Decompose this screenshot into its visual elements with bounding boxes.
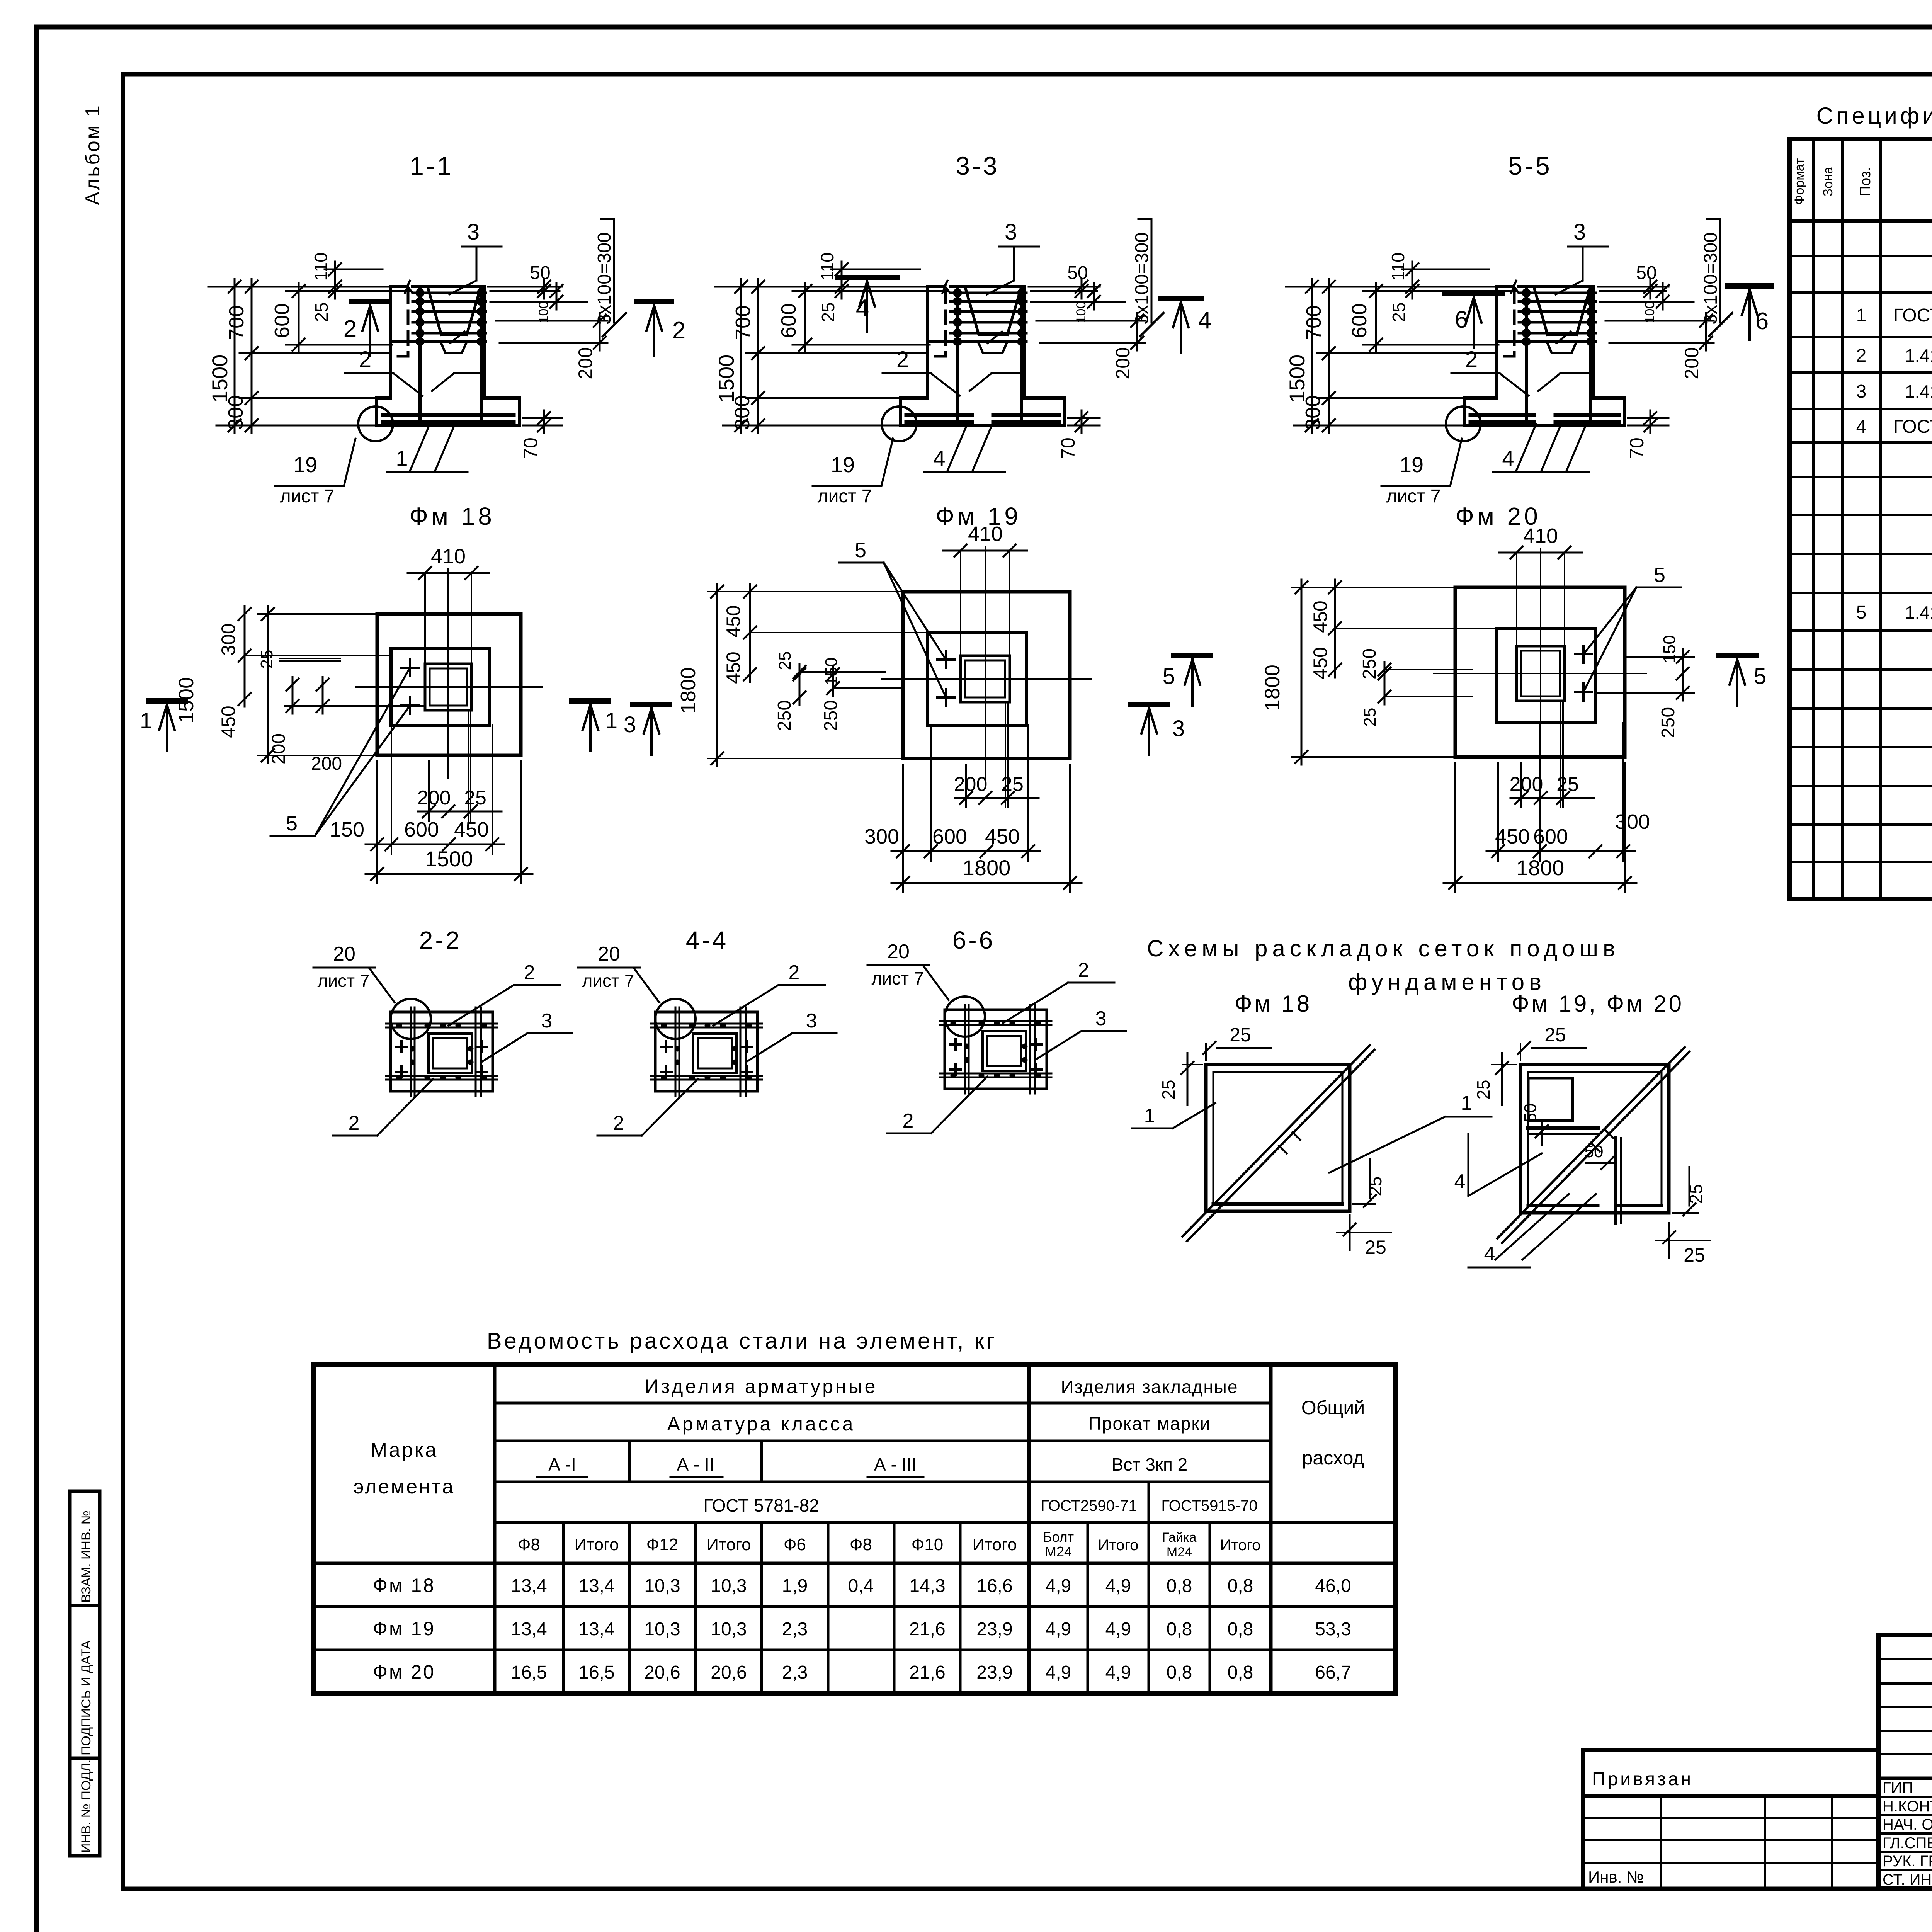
svg-text:2: 2 [1856, 345, 1867, 366]
svg-text:300: 300 [1301, 395, 1325, 430]
svg-text:16,5: 16,5 [578, 1662, 614, 1683]
svg-text:1: 1 [140, 708, 152, 733]
svg-text:600: 600 [404, 818, 439, 841]
section 3-3 footing outline [900, 398, 1065, 425]
svg-text:5: 5 [855, 539, 866, 562]
svg-text:4,9: 4,9 [1105, 1576, 1131, 1596]
svg-text:Инв. №: Инв. № [1588, 1868, 1644, 1886]
small section 6-6 leader 2 top [1003, 983, 1068, 1023]
svg-text:600: 600 [1533, 825, 1568, 848]
svg-text:50: 50 [1636, 263, 1656, 283]
section 5-5 left cut arrow 6 [1445, 291, 1502, 296]
small section 6-6 leader 3 right [1035, 1031, 1082, 1060]
svg-text:19: 19 [831, 452, 855, 477]
svg-text:ГОСТ5915-70: ГОСТ5915-70 [1161, 1497, 1257, 1514]
svg-text:14,3: 14,3 [909, 1576, 945, 1596]
section 5-5 dimension chain 600 [1363, 290, 1516, 292]
svg-text:Вст 3кп 2: Вст 3кп 2 [1112, 1454, 1188, 1475]
svg-text:3x100=300: 3x100=300 [594, 232, 615, 325]
plan Фм 20 column square [1517, 646, 1565, 701]
svg-text:23,9: 23,9 [976, 1619, 1012, 1639]
svg-text:Схемы раскладок сеток подошв: Схемы раскладок сеток подошв [1147, 935, 1620, 961]
svg-text:600: 600 [932, 825, 967, 848]
svg-text:600: 600 [270, 303, 294, 338]
small section 4-4 inner column square [693, 1034, 736, 1073]
svg-text:1,9: 1,9 [782, 1576, 808, 1596]
scheme Фм 19 20 dim 25 right-bottom [1673, 1212, 1698, 1214]
plan Фм 19 embed plus marks pos.5 [937, 658, 954, 661]
scheme Фм 19 20 dim 25 top [1520, 1043, 1521, 1061]
svg-text:6: 6 [1755, 308, 1769, 335]
svg-text:Ф8: Ф8 [518, 1535, 540, 1554]
svg-text:20,6: 20,6 [644, 1662, 680, 1683]
svg-text:лист 7: лист 7 [582, 971, 634, 991]
section 5-5 bottom mesh leader label 4 [1516, 424, 1536, 472]
svg-text:1-1: 1-1 [410, 151, 453, 180]
section 3-3 bottom mesh leader label 4 [947, 424, 967, 472]
svg-text:1: 1 [605, 708, 617, 733]
svg-text:0,8: 0,8 [1167, 1576, 1192, 1596]
svg-text:Зона: Зона [1821, 167, 1835, 196]
section 5-5 socket cup [1534, 289, 1548, 335]
svg-text:200: 200 [954, 773, 988, 796]
small section 2-2 leader 2 top [449, 985, 514, 1026]
svg-text:5: 5 [1856, 602, 1867, 623]
svg-text:Ф6: Ф6 [784, 1535, 806, 1554]
small section 4-4 node circle 20 [655, 999, 696, 1039]
svg-text:25: 25 [1686, 1184, 1706, 1204]
section 3-3 bottom mesh bar [928, 340, 1026, 343]
section 1-1 dimension chain 600 [286, 290, 410, 292]
svg-text:0,8: 0,8 [1228, 1576, 1253, 1596]
svg-text:200: 200 [417, 787, 451, 809]
svg-text:25: 25 [1361, 708, 1379, 727]
plan Фм 18 bottom dims 200 25 [428, 761, 430, 821]
svg-text:50: 50 [1521, 1104, 1540, 1122]
svg-text:4: 4 [933, 446, 945, 470]
svg-text:4: 4 [1856, 417, 1867, 437]
scheme Фм 19 20 dim 25 left [1492, 1064, 1517, 1065]
svg-text:2: 2 [672, 317, 685, 344]
svg-text:5: 5 [286, 812, 298, 835]
svg-text:600: 600 [1348, 303, 1371, 338]
svg-text:450: 450 [454, 818, 489, 841]
section 3-3 horizontal mesh bars pos.3 [950, 292, 1026, 294]
svg-text:200: 200 [575, 347, 596, 379]
svg-text:Общий: Общий [1301, 1397, 1365, 1418]
svg-text:4: 4 [1484, 1243, 1495, 1265]
svg-text:2: 2 [349, 1112, 360, 1134]
section 5-5 right dimensions 50 100 200 [1598, 286, 1668, 288]
svg-text:3x100=300: 3x100=300 [1701, 232, 1721, 325]
scheme Фм 18 dim 25 left [1182, 1064, 1202, 1065]
svg-text:Итого: Итого [706, 1535, 751, 1554]
section 3-3 left cut arrow 4 [837, 275, 897, 280]
svg-text:3: 3 [806, 1010, 817, 1032]
scheme Фм 19 20 mesh square [1520, 1065, 1669, 1213]
section 3-3 break mark [942, 280, 950, 293]
small section 2-2 leader 3 right [481, 1033, 527, 1062]
svg-text:Привязан: Привязан [1592, 1769, 1693, 1789]
plan Фм 18 centerlines [356, 686, 542, 688]
svg-text:300: 300 [218, 623, 239, 655]
svg-text:4,9: 4,9 [1046, 1576, 1071, 1596]
specification table column lines [1812, 139, 1815, 899]
small section 2-2 rebar dots [396, 1023, 402, 1028]
svg-text:4,9: 4,9 [1046, 1619, 1071, 1639]
section 1-1 left dimension chain 1500 [209, 286, 390, 288]
svg-text:лист 7: лист 7 [280, 486, 335, 507]
svg-text:2: 2 [344, 316, 357, 342]
svg-text:2: 2 [789, 961, 800, 984]
svg-text:200: 200 [1510, 773, 1543, 796]
section 3-3 dimension 3x100=300 [1151, 219, 1153, 323]
small section 6-6 mesh bars [964, 1005, 966, 1094]
svg-text:2: 2 [896, 347, 909, 372]
small section 4-4 corner plus marks [661, 1046, 672, 1048]
section 5-5 hidden edge dashed [1513, 290, 1516, 354]
section 3-3 dimension 70 [1068, 417, 1100, 419]
svg-text:46,0: 46,0 [1315, 1576, 1351, 1596]
section 1-1 break mark [405, 280, 413, 293]
small section 6-6 corner plus marks [950, 1043, 961, 1046]
plan Фм 19 bottom total dim [902, 764, 904, 893]
svg-text:70: 70 [1626, 437, 1648, 459]
svg-text:Ф8: Ф8 [850, 1535, 872, 1554]
section 5-5 column outline [1495, 287, 1498, 398]
svg-text:250: 250 [774, 700, 795, 731]
svg-text:300: 300 [224, 395, 247, 430]
plan Фм 19 left cut arrow 3 [633, 702, 670, 707]
section 5-5 break mark [1511, 280, 1519, 293]
svg-text:25: 25 [1556, 773, 1579, 796]
section 1-1 right dimensions 50 100 200 [488, 286, 562, 288]
svg-text:25: 25 [311, 302, 332, 322]
left margin stamp strip [70, 1491, 100, 1856]
svg-text:3: 3 [541, 1010, 553, 1032]
small section 6-6 node circle 20 [945, 997, 985, 1037]
svg-text:лист 7: лист 7 [318, 971, 370, 991]
svg-text:Болт: Болт [1043, 1529, 1074, 1545]
svg-text:Формат: Формат [1792, 158, 1807, 205]
svg-text:ГОСТ2590-71: ГОСТ2590-71 [1041, 1497, 1137, 1514]
svg-text:5: 5 [1754, 664, 1766, 689]
svg-text:2-2: 2-2 [419, 926, 462, 954]
svg-text:СТ. ИНЖ.: СТ. ИНЖ. [1883, 1871, 1932, 1888]
svg-text:100: 100 [1643, 301, 1657, 323]
svg-text:450: 450 [218, 706, 239, 738]
svg-text:Альбом 1: Альбом 1 [82, 104, 104, 205]
svg-text:25: 25 [1684, 1244, 1705, 1266]
plan Фм 20 right cut arrow 5 [1719, 653, 1756, 658]
section 5-5 right cut arrow 6 [1728, 283, 1772, 289]
svg-text:1: 1 [1144, 1105, 1155, 1127]
section 3-3 right dimensions 50 100 200 [1029, 286, 1100, 288]
svg-text:А - II: А - II [677, 1454, 714, 1475]
svg-text:450: 450 [985, 825, 1020, 848]
section 3-3 hidden edge dashed [944, 290, 947, 354]
small section 6-6 rebar dots [951, 1020, 956, 1026]
plan Фм 18 middle step square [391, 649, 490, 725]
section 1-1 label 3 leader [462, 246, 502, 248]
svg-text:100: 100 [536, 301, 551, 323]
svg-text:6-6: 6-6 [952, 926, 995, 954]
section 5-5 bottom mesh bar [1497, 340, 1595, 343]
svg-text:600: 600 [777, 303, 800, 338]
small section 2-2 leader 2 bottom [377, 1079, 433, 1136]
plan Фм 18 leader 5 [315, 668, 410, 836]
section 3-3 socket cup [966, 289, 979, 335]
svg-text:ГОСТ 23279-83: ГОСТ 23279-83 [1893, 417, 1932, 437]
svg-text:5: 5 [1163, 664, 1175, 689]
small section 4-4 rebar dots [661, 1023, 667, 1028]
steel table outline [314, 1365, 1396, 1693]
scheme Фм 19 20 dim 50 upper [1541, 1121, 1543, 1146]
svg-text:3: 3 [1172, 716, 1185, 741]
plan Фм 20 middle step square [1496, 628, 1596, 723]
svg-text:РУК. ГР.: РУК. ГР. [1883, 1853, 1932, 1870]
plan Фм 19 bottom dims 200 25 [965, 764, 967, 808]
svg-text:50: 50 [1585, 1142, 1604, 1161]
svg-text:450: 450 [1495, 825, 1530, 848]
plan Фм 20 top dimension 410 [1516, 553, 1517, 646]
svg-text:20: 20 [887, 940, 910, 963]
section 1-1 socket cup [428, 289, 441, 335]
section 3-3 detail circle node 19 [882, 406, 917, 441]
svg-text:лист 7: лист 7 [1386, 486, 1441, 507]
svg-text:20,6: 20,6 [711, 1662, 747, 1683]
plan Фм 19 centerlines [882, 678, 1091, 680]
svg-text:25: 25 [1389, 302, 1409, 322]
svg-text:13,4: 13,4 [578, 1576, 614, 1596]
svg-text:2: 2 [1465, 347, 1478, 372]
svg-text:ГОСТ 23279-83: ГОСТ 23279-83 [1893, 305, 1932, 326]
svg-text:23,9: 23,9 [976, 1662, 1012, 1683]
small section 2-2 node circle 20 [391, 999, 431, 1039]
svg-text:700: 700 [1302, 305, 1325, 340]
svg-text:Ф10: Ф10 [912, 1535, 943, 1554]
svg-text:10,3: 10,3 [711, 1619, 747, 1639]
section 5-5 socket lower trapezoid [1547, 342, 1577, 353]
svg-text:ИНВ. № ПОДЛ.: ИНВ. № ПОДЛ. [79, 1760, 94, 1853]
svg-text:450: 450 [723, 605, 744, 637]
section 1-1 bottom mesh leader label 1 [410, 424, 430, 472]
svg-text:ПОДПИСЬ И ДАТА: ПОДПИСЬ И ДАТА [79, 1640, 94, 1755]
svg-text:4,9: 4,9 [1046, 1662, 1071, 1683]
plan Фм 18 top dimension 410 [424, 573, 426, 664]
svg-text:3: 3 [467, 219, 480, 245]
svg-text:25: 25 [257, 650, 276, 669]
svg-text:Поз.: Поз. [1857, 167, 1874, 196]
svg-text:450: 450 [1310, 600, 1331, 633]
plan Фм 20 embed plus marks pos.5 [1575, 653, 1592, 655]
svg-text:Ф12: Ф12 [646, 1535, 678, 1554]
svg-text:100: 100 [1074, 301, 1088, 323]
plan Фм 20 left cut arrow 5 [1174, 653, 1211, 658]
svg-text:ГИП: ГИП [1883, 1779, 1913, 1796]
section 5-5 footing mesh pos.1 bold [1471, 413, 1534, 417]
plan Фм 19 left sub dims [749, 584, 751, 682]
svg-text:Итого: Итого [574, 1535, 619, 1554]
small section 2-2 mesh bars [410, 1007, 412, 1096]
scheme Фм 18 leaders 1 [1173, 1103, 1215, 1128]
svg-text:расход: расход [1302, 1447, 1364, 1469]
svg-text:1: 1 [396, 446, 408, 470]
section 1-1 dimension chain 700 300 [240, 352, 390, 354]
svg-text:50: 50 [530, 263, 550, 283]
svg-text:2: 2 [1078, 959, 1089, 981]
plan Фм 19 column square [961, 656, 1010, 702]
svg-text:150: 150 [1660, 635, 1679, 663]
svg-text:1.412-1/77 в.3: 1.412-1/77 в.3 [1905, 381, 1932, 401]
svg-text:3: 3 [1856, 381, 1867, 402]
small section 4-4 leader 2 top [713, 985, 779, 1026]
section 5-5 vertical bars pos.2 [1525, 290, 1528, 422]
section 5-5 chamfer leader lines [1451, 372, 1500, 374]
svg-text:20: 20 [598, 943, 620, 965]
section 1-1 column outline [389, 287, 392, 398]
section 5-5 footing outline [1464, 398, 1625, 425]
plan Фм 19 leader 5 [884, 563, 946, 660]
svg-text:110: 110 [1388, 252, 1408, 281]
svg-text:450: 450 [723, 651, 744, 684]
section 1-1 hidden edge dashed [407, 290, 410, 354]
svg-text:25: 25 [1473, 1080, 1493, 1099]
section 5-5 label 3 leader [1568, 246, 1608, 248]
svg-text:700: 700 [731, 305, 755, 340]
svg-text:лист 7: лист 7 [872, 968, 924, 988]
svg-text:2,3: 2,3 [782, 1619, 808, 1639]
svg-text:Прокат марки: Прокат марки [1088, 1413, 1211, 1434]
svg-text:250: 250 [1359, 648, 1380, 679]
svg-text:М24: М24 [1045, 1544, 1072, 1560]
svg-text:4,9: 4,9 [1105, 1662, 1131, 1683]
section 3-3 left dimension chain 1500 [715, 286, 928, 288]
plan Фм 20 bottom total dim [1454, 763, 1456, 893]
svg-text:10,3: 10,3 [644, 1576, 680, 1596]
plan Фм 18 bottom chain row [376, 761, 378, 854]
svg-text:13,4: 13,4 [511, 1619, 547, 1639]
svg-text:410: 410 [1523, 524, 1558, 548]
plan Фм 20 right side dims 150 250 [1625, 656, 1694, 658]
section 1-1 footing outline [377, 398, 520, 425]
svg-text:66,7: 66,7 [1315, 1662, 1351, 1683]
svg-text:Изделия закладные: Изделия закладные [1061, 1377, 1238, 1397]
section 1-1 socket lower trapezoid [440, 342, 467, 353]
section 3-3 dimension chain 600 [793, 290, 947, 292]
plan Фм 20 bottom dims 200 25 [1520, 763, 1522, 808]
svg-text:3x100=300: 3x100=300 [1132, 232, 1152, 325]
svg-text:Изделия арматурные: Изделия арматурные [645, 1376, 878, 1397]
plan Фм 18 left dim chain total [258, 613, 377, 615]
section 1-1 right cut arrow 2 [637, 299, 672, 304]
svg-text:0,8: 0,8 [1228, 1662, 1253, 1683]
svg-text:Н.КОНТР.: Н.КОНТР. [1883, 1798, 1932, 1815]
svg-text:300: 300 [864, 825, 899, 848]
section 1-1 footing mesh pos.1 bold [383, 413, 514, 417]
section 1-1 bottom mesh bar [390, 340, 486, 343]
svg-text:16,6: 16,6 [976, 1576, 1012, 1596]
svg-text:21,6: 21,6 [909, 1619, 945, 1639]
svg-text:Фм 18: Фм 18 [409, 502, 495, 530]
svg-text:5: 5 [1654, 563, 1665, 587]
svg-text:0,8: 0,8 [1167, 1619, 1192, 1639]
section 1-1 dimension chain 110 25 [325, 269, 383, 270]
svg-text:13,4: 13,4 [511, 1576, 547, 1596]
svg-text:450: 450 [1310, 647, 1331, 679]
plan Фм 20 bottom chain row [1497, 763, 1499, 861]
specification table outline [1789, 139, 1932, 899]
svg-text:300: 300 [1615, 810, 1650, 833]
svg-text:16,5: 16,5 [511, 1662, 547, 1683]
svg-text:4: 4 [1198, 307, 1211, 334]
svg-text:4: 4 [1454, 1170, 1466, 1193]
plan Фм 19 right cut arrow 3 [1131, 702, 1168, 707]
svg-text:25: 25 [1365, 1176, 1385, 1196]
svg-text:250: 250 [1658, 707, 1679, 738]
svg-text:4,9: 4,9 [1105, 1619, 1131, 1639]
small section 6-6 outer square [945, 1010, 1047, 1089]
svg-text:3-3: 3-3 [956, 151, 999, 180]
svg-text:410: 410 [431, 545, 466, 568]
svg-text:Арматура класса: Арматура класса [667, 1413, 855, 1435]
svg-text:250: 250 [821, 700, 841, 731]
section 1-1 dimension 70 [523, 417, 562, 419]
small section 4-4 mesh bars [675, 1007, 677, 1096]
scheme Фм 18 mesh square [1206, 1065, 1350, 1211]
plan Фм 18 left cut arrow 1 [149, 698, 185, 704]
section 1-1 chamfer leader lines [345, 372, 393, 374]
svg-text:200: 200 [311, 753, 342, 774]
svg-text:Фм 19: Фм 19 [373, 1618, 435, 1639]
small section 4-4 leader 2 bottom [642, 1079, 698, 1136]
svg-text:53,3: 53,3 [1315, 1619, 1351, 1639]
svg-text:25: 25 [1158, 1080, 1179, 1099]
small section 6-6 leader 2 bottom [931, 1077, 987, 1133]
svg-text:Итого: Итого [972, 1535, 1017, 1554]
svg-text:элемента: элемента [354, 1476, 455, 1498]
svg-text:ВЗАМ. ИНВ. №: ВЗАМ. ИНВ. № [79, 1510, 94, 1603]
svg-text:300: 300 [731, 395, 754, 430]
svg-text:1: 1 [1461, 1092, 1472, 1114]
plan Фм 19 top dimension 410 [960, 551, 961, 656]
svg-text:200: 200 [269, 733, 289, 764]
svg-text:Копировал Завьялова: Копировал Завьялова [1882, 1930, 1932, 1932]
svg-text:Фм 18: Фм 18 [1235, 991, 1312, 1017]
plan Фм 20 leader 5 [1583, 587, 1636, 654]
title block signature rows [1879, 1796, 1932, 1798]
section 5-5 left dimension chain 1500 [1286, 286, 1497, 288]
section 1-1 horizontal mesh bars pos.3 [413, 292, 486, 294]
svg-text:Ведомость расхода стали на эле: Ведомость расхода стали на элемент, кг [487, 1328, 997, 1354]
svg-text:4: 4 [1502, 446, 1514, 470]
svg-text:Марка: Марка [371, 1439, 438, 1461]
svg-text:25: 25 [818, 302, 838, 322]
plan Фм 19 left dim chain total [707, 591, 903, 592]
plan Фм 18 column square [425, 664, 471, 710]
svg-text:4: 4 [856, 295, 869, 321]
section 5-5 detail circle node 19 [1446, 406, 1481, 441]
plan Фм 20 outer footing square [1455, 587, 1625, 757]
svg-text:0,8: 0,8 [1167, 1662, 1192, 1683]
plan Фм 18 right cut arrow 1 [572, 698, 609, 704]
svg-text:1: 1 [1856, 305, 1867, 326]
small section 4-4 outer square [655, 1012, 757, 1091]
svg-text:3: 3 [1095, 1007, 1107, 1030]
svg-text:10,3: 10,3 [644, 1619, 680, 1639]
section 3-3 footing mesh pos.1 bold [906, 413, 972, 417]
svg-text:25: 25 [464, 787, 486, 809]
